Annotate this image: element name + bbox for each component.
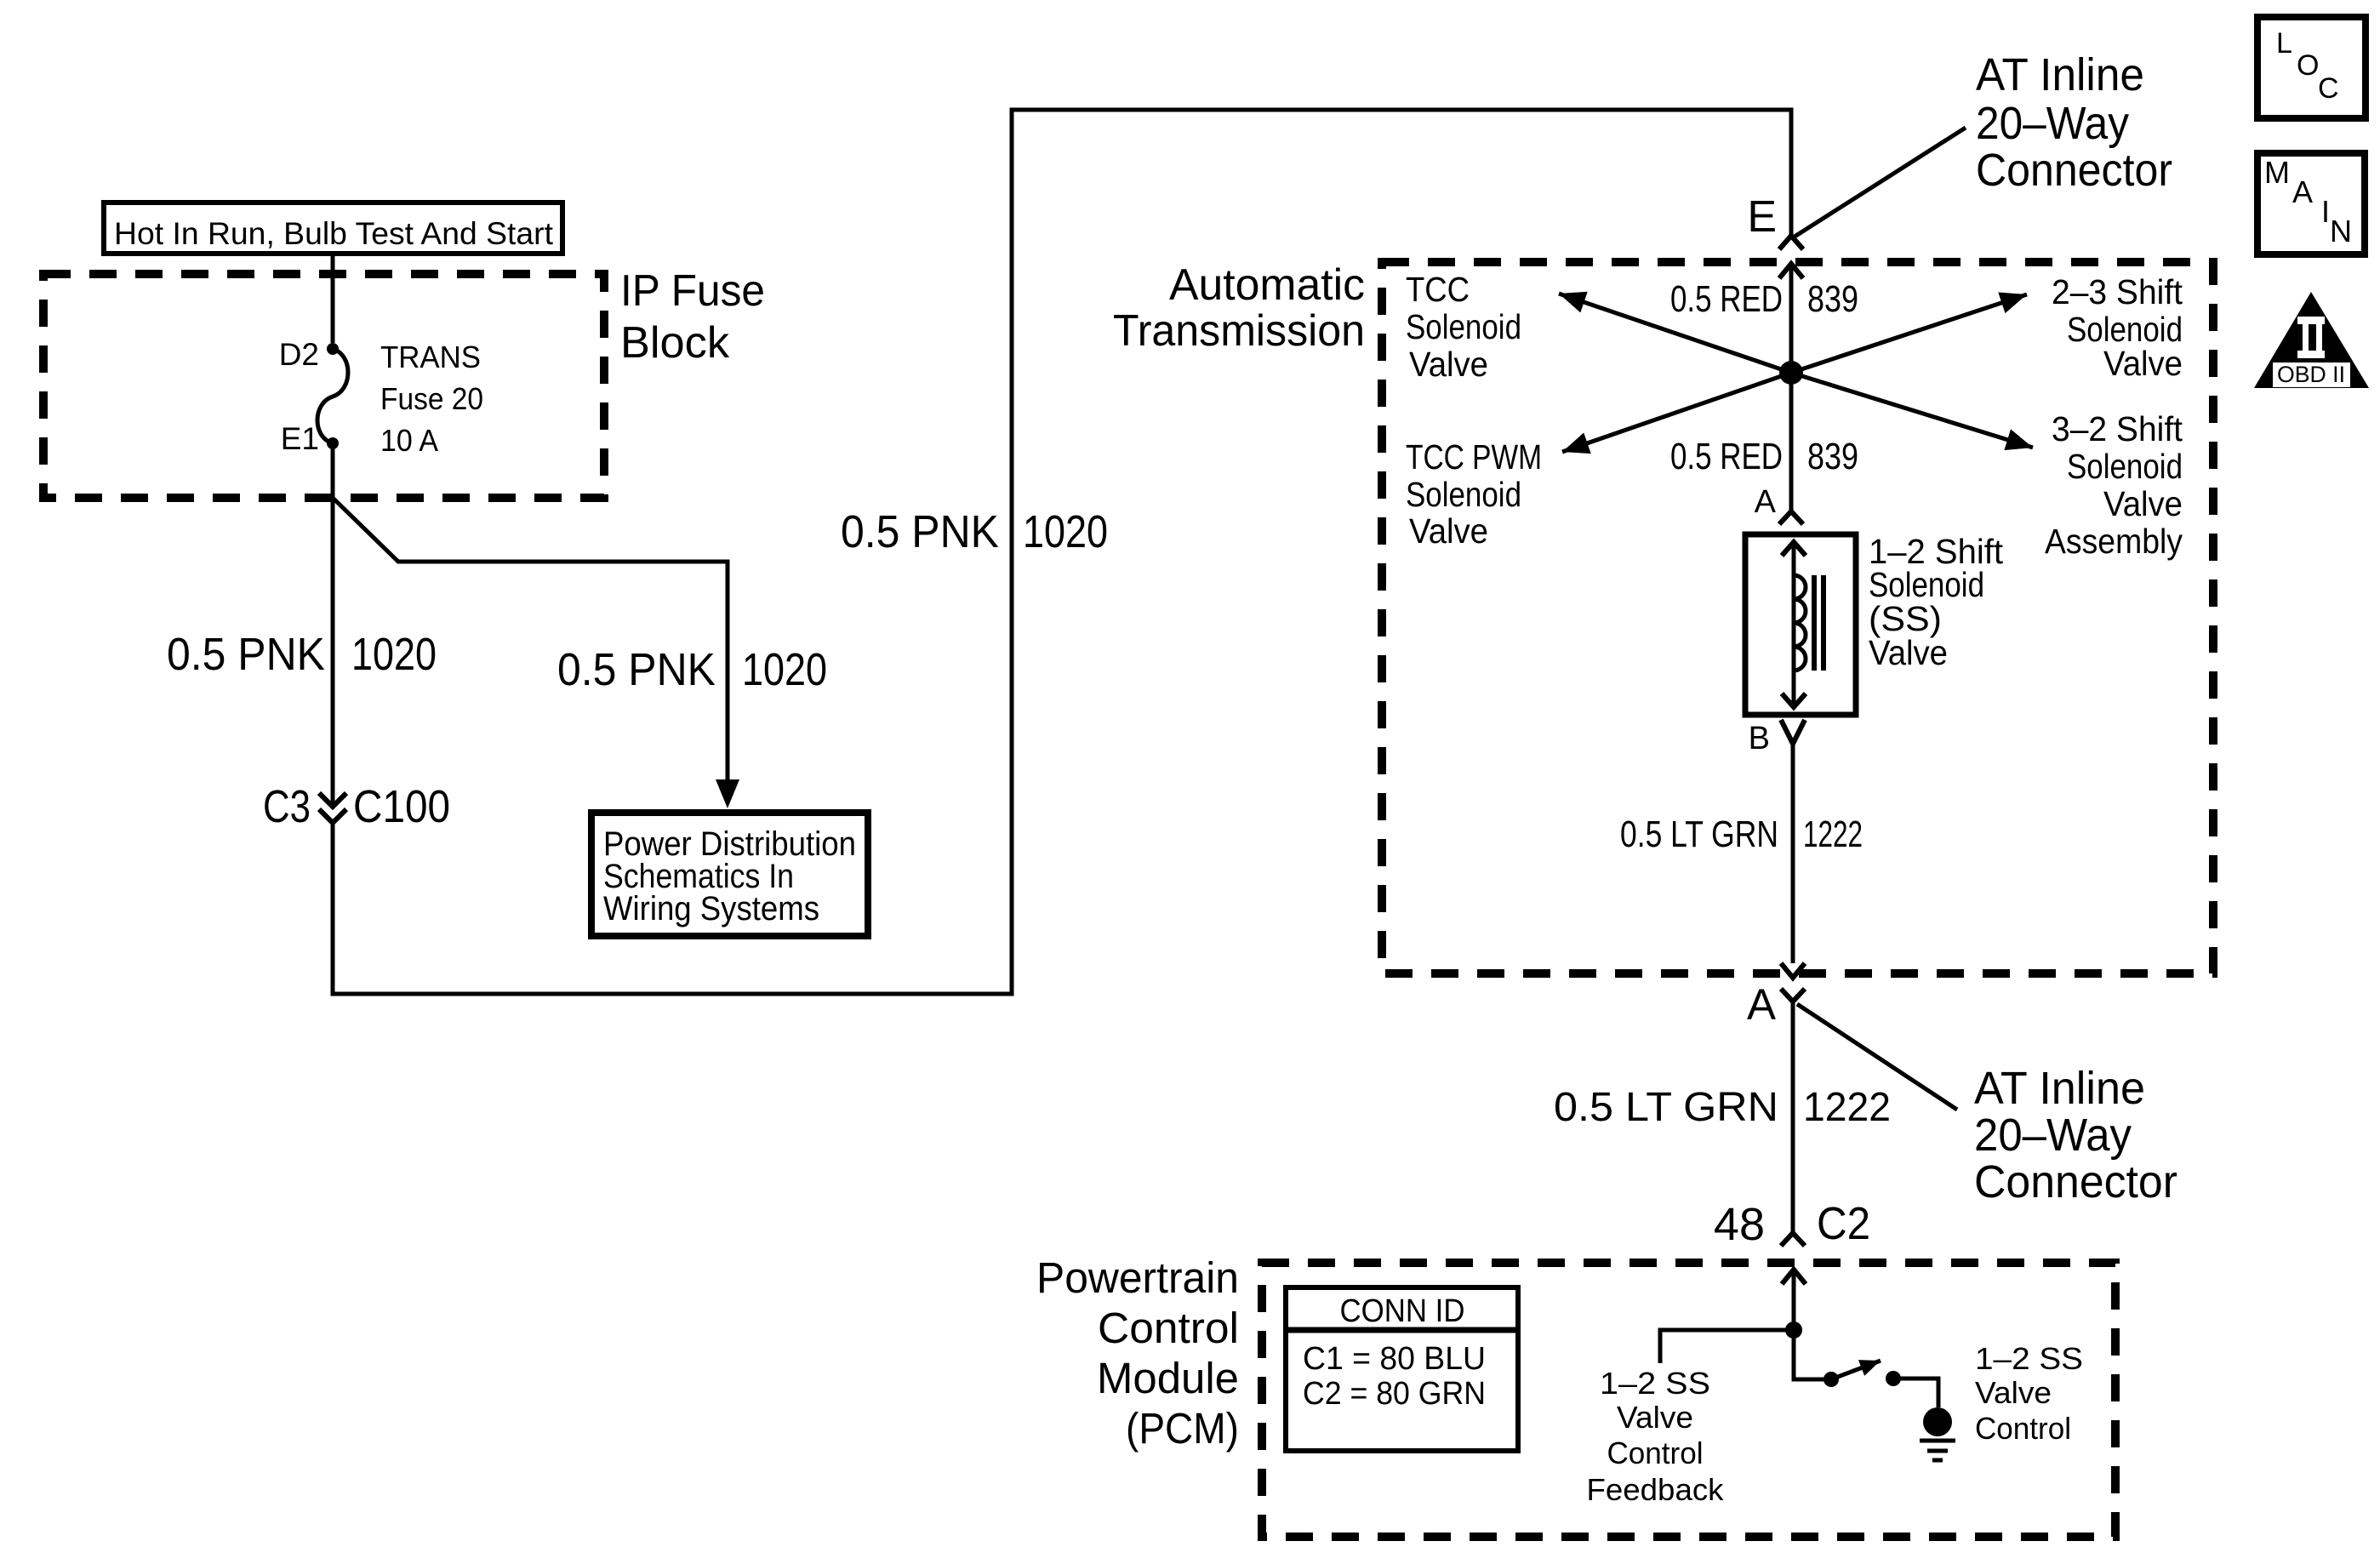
svg-text:D2: D2	[279, 337, 319, 372]
svg-text:TRANS: TRANS	[380, 340, 481, 374]
svg-text:Control: Control	[1975, 1411, 2071, 1446]
svg-text:C3: C3	[263, 781, 311, 832]
svg-text:C2: C2	[1817, 1198, 1870, 1249]
svg-text:839: 839	[1807, 436, 1858, 477]
svg-text:Valve: Valve	[1617, 1400, 1693, 1435]
svg-text:A: A	[1747, 980, 1776, 1029]
svg-text:Valve: Valve	[1975, 1375, 2052, 1410]
svg-text:48: 48	[1714, 1199, 1765, 1250]
svg-text:AT Inline: AT Inline	[1976, 49, 2144, 100]
svg-text:0.5 LT GRN: 0.5 LT GRN	[1554, 1085, 1778, 1130]
svg-text:1–2 SS: 1–2 SS	[1600, 1366, 1710, 1401]
svg-text:N: N	[2330, 214, 2352, 248]
svg-text:Valve: Valve	[1869, 633, 1948, 672]
svg-text:Control: Control	[1607, 1436, 1704, 1470]
svg-text:AT Inline: AT Inline	[1974, 1063, 2145, 1114]
svg-text:0.5 PNK: 0.5 PNK	[167, 629, 325, 680]
svg-text:10 A: 10 A	[380, 423, 438, 458]
svg-text:1222: 1222	[1803, 1085, 1891, 1130]
svg-text:O: O	[2297, 49, 2319, 82]
svg-text:Block: Block	[620, 318, 730, 368]
svg-text:839: 839	[1807, 278, 1858, 320]
svg-text:CONN ID: CONN ID	[1340, 1293, 1465, 1329]
svg-text:TCC: TCC	[1406, 270, 1470, 309]
svg-text:Valve: Valve	[2103, 344, 2183, 383]
svg-text:3–2 Shift: 3–2 Shift	[2052, 409, 2183, 448]
svg-text:Transmission: Transmission	[1113, 306, 1365, 356]
svg-text:TCC PWM: TCC PWM	[1406, 437, 1542, 477]
svg-text:Solenoid: Solenoid	[1406, 307, 1521, 346]
svg-text:IP Fuse: IP Fuse	[620, 266, 765, 316]
svg-text:Valve: Valve	[1409, 345, 1488, 384]
svg-text:1020: 1020	[742, 644, 827, 695]
svg-text:C100: C100	[353, 781, 450, 832]
svg-text:1020: 1020	[351, 629, 437, 680]
svg-text:0.5 PNK: 0.5 PNK	[841, 506, 999, 557]
svg-text:A: A	[2292, 174, 2313, 209]
svg-text:Valve: Valve	[1409, 511, 1488, 551]
svg-text:Hot In Run, Bulb Test And Star: Hot In Run, Bulb Test And Start	[114, 216, 554, 251]
svg-text:E: E	[1747, 192, 1777, 242]
svg-text:Valve: Valve	[2103, 484, 2183, 523]
svg-text:(PCM): (PCM)	[1126, 1404, 1239, 1453]
svg-text:E1: E1	[281, 421, 319, 456]
svg-text:Connector: Connector	[1974, 1156, 2177, 1207]
svg-text:0.5 RED: 0.5 RED	[1670, 278, 1783, 320]
svg-text:20–Way: 20–Way	[1976, 98, 2129, 149]
svg-text:M: M	[2264, 155, 2290, 190]
svg-text:C: C	[2318, 72, 2339, 105]
svg-text:A: A	[1755, 484, 1777, 520]
svg-text:Automatic: Automatic	[1169, 260, 1365, 310]
svg-text:Feedback: Feedback	[1587, 1472, 1725, 1507]
svg-text:1–2 SS: 1–2 SS	[1975, 1341, 2083, 1376]
svg-text:Assembly: Assembly	[2045, 522, 2183, 561]
svg-text:0.5 RED: 0.5 RED	[1670, 436, 1783, 477]
svg-text:Module: Module	[1097, 1354, 1239, 1402]
svg-text:C1 = 80 BLU: C1 = 80 BLU	[1303, 1341, 1486, 1377]
svg-text:C2 = 80 GRN: C2 = 80 GRN	[1303, 1376, 1486, 1412]
svg-text:Solenoid: Solenoid	[2067, 447, 2183, 486]
svg-text:Powertrain: Powertrain	[1036, 1253, 1239, 1302]
svg-text:Fuse 20: Fuse 20	[380, 381, 483, 416]
svg-text:Control: Control	[1098, 1304, 1239, 1352]
svg-text:2–3 Shift: 2–3 Shift	[2052, 272, 2183, 311]
svg-text:Wiring Systems: Wiring Systems	[603, 890, 819, 928]
svg-text:I: I	[2321, 194, 2330, 229]
svg-text:0.5 PNK: 0.5 PNK	[557, 644, 716, 695]
svg-text:L: L	[2276, 27, 2292, 60]
svg-text:Solenoid: Solenoid	[1406, 475, 1521, 514]
svg-text:1222: 1222	[1803, 813, 1863, 855]
svg-text:Connector: Connector	[1976, 145, 2172, 196]
svg-text:1020: 1020	[1023, 506, 1108, 557]
svg-text:OBD II: OBD II	[2277, 362, 2345, 387]
svg-text:0.5 LT GRN: 0.5 LT GRN	[1620, 813, 1778, 855]
svg-text:B: B	[1749, 721, 1770, 756]
svg-text:20–Way: 20–Way	[1974, 1110, 2132, 1161]
